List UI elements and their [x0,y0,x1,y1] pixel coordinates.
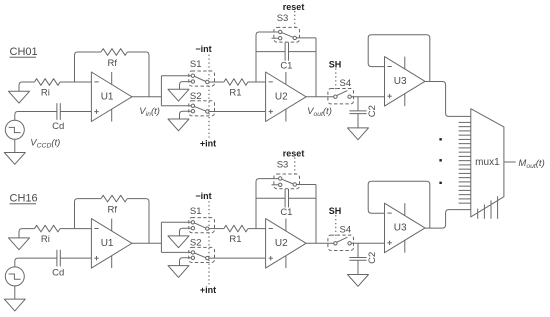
switch S3 contacts and lever (CH16) [282,179,294,184]
resistor Rf (CH16) [101,195,127,202]
svg-text:U2: U2 [275,91,288,102]
wire U3 output to mux (CH01) [425,82,471,117]
svg-text:Ri: Ri [41,87,50,98]
wire U3 feedback (CH16) [368,181,430,228]
svg-text:U1: U1 [101,91,114,102]
svg-text:C2: C2 [367,252,378,264]
wire Rf to U1 output (CH16) [127,199,149,244]
ground (S1) (CH16) [168,236,189,248]
source VCCD(t) (CH16) [5,267,24,286]
svg-text:SH: SH [329,206,342,216]
wire branch vertical (CH16) [160,222,162,252]
svg-text:CH01: CH01 [10,46,38,58]
ground (source) (CH16) [4,299,25,311]
svg-text:reset: reset [283,148,305,158]
op-amp U1 (CH16) [91,219,131,269]
switch S2 contacts and lever (CH01) [194,106,205,111]
capacitor Cd (CH16) [57,250,60,267]
ground (Ri input) (CH16) [9,238,30,250]
ground (C2) (CH01) [348,128,369,140]
switch S4 contacts and lever (CH16) [337,237,348,242]
wire source to Cd (CH16) [15,258,57,267]
wire source to ground (CH01) [14,139,16,152]
wire Ri to U1 inverting input (CH01) [60,81,91,83]
wire branch to S2 (CH16) [161,251,191,253]
capacitor Cd (CH01) [57,103,60,120]
wire S3 unused contact stub (CH01) [272,37,279,39]
svg-text:SH: SH [329,60,342,70]
svg-text:reset: reset [283,2,305,12]
ground (C2) (CH16) [348,275,369,287]
wire U2 feedback right vertical (CH16) [315,185,317,244]
wire C2 bottom (CH01) [357,114,359,128]
op-amp U1 (CH01) [91,72,131,122]
svg-text:CH16: CH16 [10,193,38,205]
switch S4 (CH16) box [328,235,354,250]
op-amp U3 (CH01) [385,57,426,107]
switch S2 (CH16) box [189,247,215,262]
switch S2 contacts and lever (CH16) [194,253,205,258]
wire S2 to U2 non-inverting input (CH01) [209,111,266,113]
switch S4 contacts and lever (CH01) [337,91,348,96]
wire R1 to U2 inverting input (CH01) [248,81,266,83]
wire Ri to U1 inverting input (CH16) [60,228,91,230]
op-amp U3 (CH16) [385,203,426,253]
switch S1 contacts and lever (CH16) [194,223,205,228]
svg-text:U3: U3 [394,223,407,234]
svg-text:S1: S1 [190,206,202,217]
wire S2 ground elbow (CH01) [180,111,192,119]
switch S1 (CH16) box [189,218,215,233]
wire mux1 output [504,161,516,163]
wire U2 feedback right vertical (CH01) [315,38,317,97]
control line reset (CH16) [294,158,296,175]
wire S2 to U2 non-inverting input (CH16) [209,257,266,259]
capacitor C1 (CH16) [285,189,288,207]
wire source to Cd (CH01) [15,112,57,121]
wire U3 feedback (CH01) [368,35,430,82]
ellipsis dots between channels [439,138,441,140]
capacitor C2 (CH16) [349,258,366,261]
source VCCD(t) (CH01) [5,120,24,139]
svg-text:Rf: Rf [108,205,118,216]
switch S2 (CH01) box [189,101,215,116]
wire S4 to U3 (CH16) [351,242,384,244]
svg-text:Cd: Cd [52,267,64,278]
svg-text:R1: R1 [229,87,241,98]
wire branch to S2 (CH01) [161,105,191,107]
mux1 input hatch lines [459,122,471,203]
svg-text:+int: +int [200,138,216,148]
control line -int/+int (CH01) [208,55,210,138]
svg-text:−int: −int [195,44,211,54]
svg-text:C2: C2 [367,105,378,117]
wire Cd to U1 non-inverting input (CH16) [60,257,91,259]
ground (S1) (CH01) [168,89,189,101]
svg-text:S4: S4 [339,225,351,236]
ground (source) (CH01) [4,153,25,165]
wire C1 branch left (CH01) [256,51,285,53]
wire S1 ground elbow (CH01) [180,82,192,90]
svg-text:U2: U2 [275,238,288,249]
resistor Ri (CH16) [35,225,61,232]
capacitor C2 (CH01) [349,111,366,114]
wire ground to Ri (CH01) [19,82,35,91]
svg-text:S1: S1 [190,59,202,70]
wire S1 to R1 (CH16) [209,228,224,230]
wire U2 feedback left vertical (CH16) [256,179,279,229]
multiplexer mux1 body [471,109,504,217]
wire U2 output to S4 (CH01) [306,96,334,98]
svg-text:+int: +int [200,285,216,295]
svg-text:S4: S4 [339,78,351,89]
wire R1 to U2 inverting input (CH16) [248,228,266,230]
op-amp U2 (CH16) [266,219,307,269]
wire C2 top (CH16) [357,243,359,257]
wire branch to S1 (CH16) [161,221,191,223]
svg-text:C1: C1 [280,207,292,218]
switch S1 contacts and lever (CH01) [194,76,205,81]
resistor Rf (CH01) [101,49,127,56]
resistor Ri (CH01) [35,79,61,86]
wire U1 output node (CH16) [132,242,162,244]
wire Rf to U1 output (CH01) [127,52,149,97]
wire U1 output node (CH01) [132,96,162,98]
wire S1 ground elbow (CH16) [180,228,192,236]
capacitor C1 (CH01) [285,42,288,60]
svg-text:R1: R1 [229,234,241,245]
svg-text:S3: S3 [277,13,289,24]
switch S3 contacts and lever (CH01) [282,33,294,38]
switch S3 (CH16) box [274,174,300,189]
wire ground to Ri (CH16) [19,229,35,238]
wire branch to S1 (CH01) [161,75,191,77]
control line SH (CH16) [335,215,337,239]
switch S4 (CH01) box [328,89,354,104]
svg-text:U1: U1 [101,238,114,249]
mux1 select lines [478,196,498,219]
control line SH (CH01) [335,69,337,93]
svg-text:C1: C1 [280,61,292,72]
wire source to ground (CH16) [14,286,16,299]
wire C2 bottom (CH16) [357,260,359,274]
wire U1 feedback left (CH16) [75,199,102,229]
wire S3 unused contact stub (CH16) [272,184,279,186]
ground (S2) (CH16) [168,266,189,278]
wire C1 branch right (CH01) [289,51,317,53]
resistor R1 (CH16) [224,225,248,232]
switch S3 (CH01) box [274,27,300,42]
wire U3 output to mux (CH16) [425,210,471,229]
switch S1 (CH01) box [189,71,215,86]
svg-text:−int: −int [195,191,211,201]
wire C1 branch left (CH16) [256,197,285,199]
op-amp U2 (CH01) [266,72,307,122]
svg-text:Rf: Rf [108,58,118,69]
ground (Ri input) (CH01) [9,91,30,103]
control line -int/+int (CH16) [208,201,210,284]
wire S4 to U3 (CH01) [351,96,384,98]
wire U2 output to S4 (CH16) [306,242,334,244]
wire U2 feedback left vertical (CH01) [256,32,279,82]
svg-text:Ri: Ri [41,234,50,245]
control line reset (CH01) [294,11,296,28]
svg-text:S3: S3 [277,159,289,170]
svg-text:U3: U3 [394,76,407,87]
svg-text:S2: S2 [190,91,202,102]
svg-text:Cd: Cd [52,121,64,132]
svg-text:S2: S2 [190,238,202,249]
wire C2 top (CH01) [357,97,359,111]
wire S1 to R1 (CH01) [209,81,224,83]
wire S3 to feedback right (CH01) [297,37,317,39]
wire Cd to U1 non-inverting input (CH01) [60,111,91,113]
wire S2 ground elbow (CH16) [180,258,192,266]
wire C1 branch right (CH16) [289,197,317,199]
svg-text:mux1: mux1 [475,157,500,168]
ground (S2) (CH01) [168,119,189,131]
resistor R1 (CH01) [224,79,248,86]
wire U1 feedback left (CH01) [75,52,102,82]
wire branch vertical (CH01) [160,76,162,106]
wire S3 to feedback right (CH16) [297,184,317,186]
